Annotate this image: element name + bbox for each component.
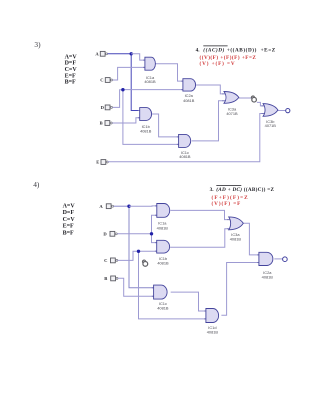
svg-text:C=V: C=V — [63, 217, 76, 223]
wire IC1a out to IC3a pin 1 — [170, 210, 227, 219]
svg-text:C=V: C=V — [65, 67, 78, 73]
svg-text:3): 3) — [34, 40, 41, 49]
svg-text:(V) +(F) =V: (V) +(F) =V — [200, 60, 236, 67]
wire junction C to IC1b pin 2 — [139, 250, 157, 252]
op IC3b (OR 4071B) — [261, 104, 278, 128]
wire junction A down to IC1c pin 2 (highlighted) — [129, 206, 154, 288]
svg-text:4081B: 4081B — [183, 98, 195, 103]
wire IC1a out to IC2a pin 1 — [155, 64, 183, 81]
wire C up to junction C — [118, 251, 139, 260]
wire IC1b out to IC3a pin 2 — [170, 229, 227, 248]
op IC1c (AND 4081B) — [152, 285, 169, 311]
svg-text:(F+F)(F)=Z: (F+F)(F)=Z — [212, 194, 249, 201]
wire B to IC1b pin 2 — [112, 118, 139, 123]
wire E to IC3b pin 2 — [108, 114, 263, 163]
op IC1d (AND 4081B) — [204, 309, 218, 335]
overline of (AD + DC) — [216, 185, 241, 187]
wire junction D down to IC1b pin 1 — [152, 234, 157, 243]
svg-text:4071B: 4071B — [226, 111, 238, 116]
svg-text:4081B: 4081B — [140, 128, 152, 133]
svg-text:4081B: 4081B — [207, 330, 219, 335]
wire IC3a out toward IC3b — [239, 97, 252, 99]
svg-text:((AC)D) +((AB)(D)) +E=Z: ((AC)D) +((AB)(D)) +E=Z — [203, 47, 275, 54]
svg-text:C: C — [100, 78, 103, 83]
wire IC1d out to IC2a pin 2 — [221, 263, 259, 316]
svg-text:B: B — [100, 121, 103, 126]
wire A to junction (highlighted) — [114, 205, 129, 207]
svg-text:IC1a: IC1a — [158, 220, 167, 225]
node C (input terminal) — [100, 78, 112, 83]
svg-text:B: B — [104, 276, 107, 281]
svg-text:((V)(F) +(F)(F) +F=Z: ((V)(F) +(F)(F) +F=Z — [200, 54, 257, 61]
svg-text:D=F: D=F — [65, 61, 77, 67]
node E (input terminal) — [96, 160, 108, 165]
node B (input terminal) — [100, 121, 113, 126]
svg-text:4081B: 4081B — [157, 226, 169, 231]
op IC1c (AND 4081B) — [177, 134, 191, 159]
svg-text:4081B: 4081B — [230, 237, 242, 242]
node D (input terminal) — [103, 231, 117, 236]
svg-text:E: E — [96, 160, 99, 165]
svg-text:E=F: E=F — [65, 73, 76, 79]
wire junction C down to IC1d pin 2 — [139, 251, 206, 319]
output pin Z (circuit 4) — [283, 257, 288, 262]
wire C to IC1a pin 2 — [113, 67, 145, 80]
wire junction A to IC1a pin 1 — [131, 54, 145, 60]
op IC1b (AND 4081B) — [155, 240, 170, 265]
wire junction A to IC1a pin 1 — [129, 205, 157, 207]
junction dot on net A — [130, 52, 133, 55]
op IC2a (AND 4081B) — [257, 252, 273, 279]
node C (input terminal) — [104, 258, 118, 263]
op IC3a (OR 4071B) — [222, 92, 239, 116]
svg-text:B=F: B=F — [63, 230, 74, 236]
junction dot on net A — [127, 205, 130, 208]
wire D up to junction D — [113, 90, 123, 108]
junction dot on net C — [137, 250, 140, 253]
wire junction D down to IC1c pin 2 — [123, 90, 179, 145]
node D (input terminal) — [101, 105, 113, 110]
svg-text:4071B: 4071B — [265, 123, 277, 128]
wire into IC3b pin 1 — [257, 102, 263, 106]
wire B to IC1c pin 1 — [118, 278, 154, 296]
svg-text:B=F: B=F — [65, 79, 76, 85]
wire junction D up to IC1a pin 2 — [152, 215, 157, 234]
overline of ((AC)D) — [203, 45, 227, 47]
wire IC3a out to IC2a pin 1 — [243, 223, 259, 255]
wire IC2a out to IC3a pin 1 — [196, 85, 223, 94]
op IC1a (AND 4081B, circuit 4) — [155, 204, 170, 231]
output pin Z (circuit 3) — [286, 109, 290, 113]
junction dot on net D — [150, 232, 153, 235]
junction dot on net D — [121, 88, 124, 91]
wire IC2a out to output pin — [274, 258, 282, 260]
node A (input terminal, circuit 4) — [99, 204, 113, 209]
wire IC1c out to IC1d pin 1 — [171, 292, 206, 311]
node B (input terminal) — [104, 276, 118, 281]
input value list (circuit 4) — [63, 204, 76, 237]
wire junction A down to IC1b pin 1 (highlighted) — [131, 54, 140, 111]
op IC2a (AND 4081B) — [181, 79, 195, 103]
hand cursor (circuit 4) — [143, 260, 148, 266]
wire IC1c out to IC3a pin 2 — [192, 101, 224, 141]
svg-text:4081B: 4081B — [179, 154, 191, 159]
svg-text:(AD + DC) ((AB)C)) =Z: (AD + DC) ((AB)C)) =Z — [216, 186, 274, 193]
wire junction D to IC2a pin 2 — [123, 89, 183, 91]
node A (input terminal, circuit 3) — [95, 51, 107, 56]
wire IC3b out to output pin — [275, 110, 285, 112]
op IC3a (OR 4081B label) — [227, 217, 243, 242]
svg-text:(V)(F) =F: (V)(F) =F — [212, 200, 242, 207]
svg-text:D=F: D=F — [63, 210, 75, 216]
svg-text:E=F: E=F — [63, 223, 74, 229]
svg-text:A=V: A=V — [63, 204, 76, 210]
svg-text:4): 4) — [33, 180, 40, 189]
svg-text:A=V: A=V — [65, 54, 78, 60]
op IC1a (AND 4081B) — [143, 57, 156, 84]
wire A to junction (highlighted) — [108, 53, 132, 55]
svg-text:C: C — [104, 258, 107, 263]
hand cursor on wire — [251, 96, 256, 102]
wire IC1b out to IC1c pin 1 — [152, 114, 179, 137]
wire D to junction D — [117, 233, 151, 235]
svg-text:4081B: 4081B — [144, 79, 156, 84]
svg-text:4081B: 4081B — [262, 274, 274, 279]
svg-text:4081B: 4081B — [157, 306, 169, 311]
svg-text:4081B: 4081B — [157, 261, 169, 266]
input value list (circuit 3) — [65, 54, 78, 85]
op IC1b (AND 4081B) — [138, 108, 152, 134]
